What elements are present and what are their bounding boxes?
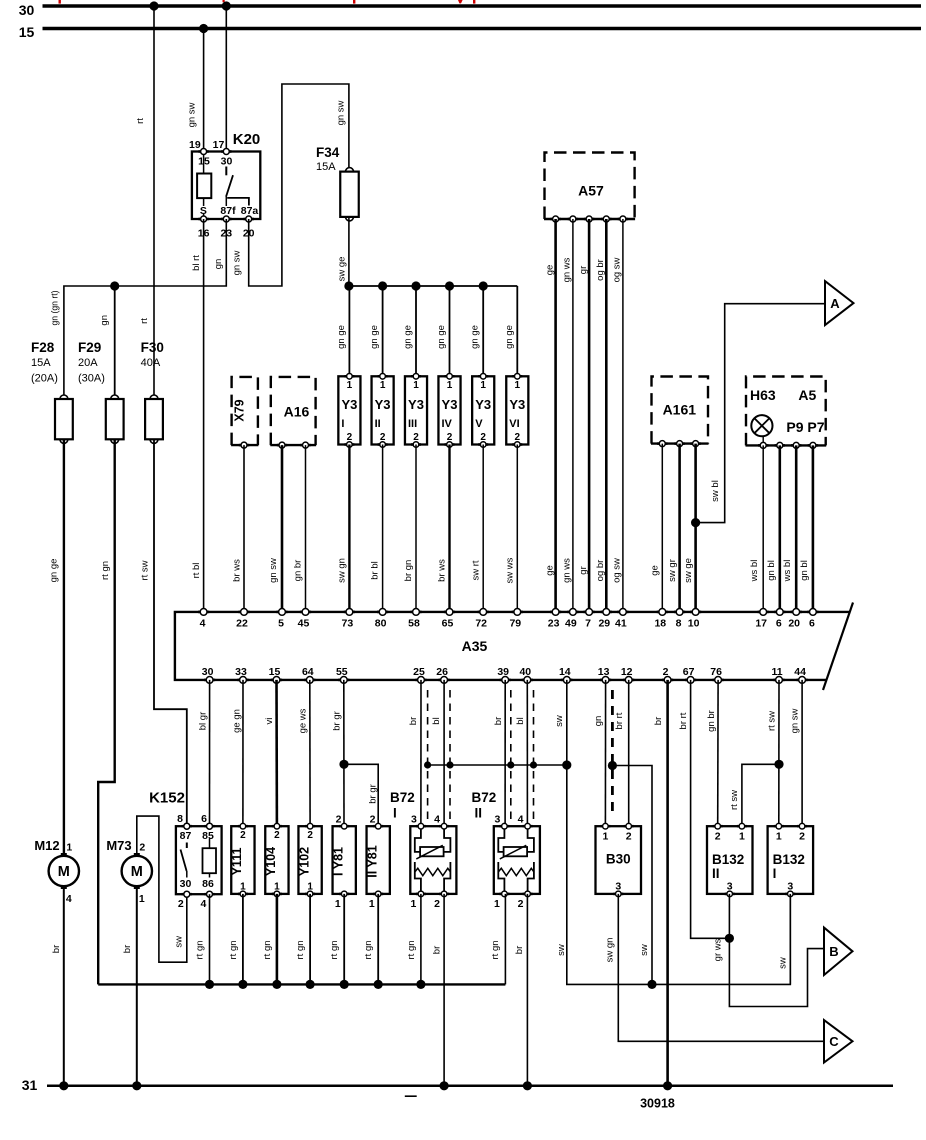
svg-text:1: 1: [66, 842, 72, 854]
wire rt gn to ground bus: [377, 894, 379, 985]
svg-text:3: 3: [411, 813, 417, 825]
svg-text:29: 29: [598, 617, 610, 629]
svg-text:2: 2: [139, 842, 145, 854]
wire gn sw from line 15 to K20 pin 19: [203, 29, 205, 152]
svg-text:B72: B72: [390, 790, 415, 805]
svg-text:br: br: [122, 945, 133, 953]
svg-text:44: 44: [794, 666, 806, 678]
svg-text:br bl: br bl: [370, 561, 381, 579]
svg-text:IV: IV: [442, 418, 453, 430]
svg-text:rt sw: rt sw: [729, 790, 740, 810]
svg-text:P9 P7: P9 P7: [786, 419, 824, 435]
svg-text:2: 2: [799, 831, 805, 843]
wire sw gn from B30 pin 3 to arrow C: [618, 894, 824, 1041]
svg-text:6: 6: [776, 617, 782, 629]
K20 pin 19: [198, 149, 208, 155]
svg-text:18: 18: [654, 617, 666, 629]
svg-text:2: 2: [347, 432, 353, 443]
wire gn sw from A16 to A35 pin 5: [281, 445, 284, 612]
svg-text:10: 10: [688, 617, 700, 629]
A35 top pin 4: [198, 609, 209, 616]
connector arrow A: [825, 281, 854, 325]
svg-text:87: 87: [180, 830, 192, 842]
wire rt from line 30 to fuse F30: [153, 6, 155, 399]
svg-text:gn ge: gn ge: [369, 325, 380, 349]
K20 pin 17: [221, 149, 231, 155]
svg-text:og br: og br: [595, 259, 606, 281]
K20 switch wire to 87f: [225, 197, 227, 206]
K20 coil: [197, 155, 211, 219]
wire rt gn from B72 I pin 1 to ground bus: [420, 894, 422, 985]
svg-text:B: B: [829, 944, 838, 959]
junction Y3 bus: [445, 281, 454, 290]
svg-text:64: 64: [302, 666, 314, 678]
svg-text:4: 4: [200, 617, 206, 629]
wire gn ge to Y3 V: [482, 286, 484, 376]
junction B132 II pin 3 with br rt: [725, 934, 734, 943]
svg-text:1: 1: [602, 831, 608, 843]
svg-text:gn: gn: [593, 716, 604, 727]
svg-text:1: 1: [139, 893, 145, 905]
svg-text:vi: vi: [264, 718, 275, 725]
junction on A161 pin3 wire: [691, 518, 700, 527]
svg-text:II: II: [475, 806, 483, 821]
module A5 with lamp H63 dashed box: [746, 377, 827, 446]
svg-text:2: 2: [380, 432, 386, 443]
K152 pin 6: [204, 823, 214, 829]
A35 top pin 8: [674, 609, 685, 616]
svg-text:2: 2: [447, 432, 453, 443]
svg-text:2: 2: [178, 898, 184, 910]
svg-text:Y102: Y102: [297, 847, 311, 876]
svg-text:rt sw: rt sw: [767, 711, 778, 731]
svg-text:sw gr: sw gr: [667, 559, 678, 582]
svg-text:8: 8: [676, 617, 682, 629]
solenoid valve Y104: [265, 826, 288, 894]
wire br from B72 I pin 2 to line 31: [443, 894, 445, 1086]
junction br pin2 wire on line 31: [663, 1081, 672, 1090]
svg-text:17: 17: [213, 139, 225, 151]
wire br ws from X79 to A35 pin 22: [243, 445, 245, 612]
svg-text:65: 65: [442, 617, 454, 629]
ground bus rt gn: [98, 983, 505, 985]
A35 bottom pin 33: [237, 677, 248, 684]
A35 top pin 7: [584, 609, 595, 616]
wire br gr branch to Y81 II: [344, 764, 378, 826]
wire sw from B132 I pin 3 down to screen ground line: [789, 894, 791, 985]
red clipped text fragments at top edge: [59, 0, 476, 4]
svg-text:1: 1: [413, 380, 419, 391]
control module A57 dashed box: [544, 153, 635, 220]
svg-text:rt: rt: [135, 118, 146, 124]
svg-text:2: 2: [336, 813, 342, 825]
fuse F29: [106, 395, 124, 443]
svg-text:sw ws: sw ws: [504, 557, 515, 583]
svg-text:1: 1: [335, 898, 341, 910]
junction on line 31: [523, 1081, 532, 1090]
svg-text:rt: rt: [139, 318, 150, 324]
svg-text:sw gn: sw gn: [605, 938, 616, 963]
svg-text:rt gn: rt gn: [490, 940, 501, 959]
svg-text:A5: A5: [798, 387, 816, 403]
svg-text:br: br: [408, 717, 419, 725]
K20 pin 23: [221, 216, 231, 222]
junction M73 on line 31: [132, 1081, 141, 1090]
wire gn from K20 pin 23 to fuses F28 F29: [64, 219, 226, 399]
svg-text:br rt: br rt: [678, 712, 689, 729]
K20 switch blade: [226, 175, 233, 197]
wire ws bl from A5 to A35: [762, 445, 764, 612]
svg-text:gn bl: gn bl: [799, 560, 810, 581]
svg-text:1: 1: [307, 882, 313, 893]
svg-text:4: 4: [518, 813, 524, 825]
svg-text:I Y81: I Y81: [331, 847, 345, 876]
wire gn from A35 pin 13 to B30 pin 1: [604, 680, 606, 826]
svg-text:2: 2: [370, 813, 376, 825]
svg-text:26: 26: [436, 666, 448, 678]
knock sensor B72 II: [494, 826, 540, 894]
A161 pin 1: [657, 441, 667, 447]
svg-text:br gr: br gr: [331, 711, 342, 731]
A57 pin 3: [584, 216, 594, 222]
svg-text:1: 1: [410, 898, 416, 910]
svg-text:22: 22: [236, 617, 248, 629]
junction on ground bus: [374, 980, 383, 989]
A35 top pin 17: [758, 609, 769, 616]
svg-text:gn ge: gn ge: [49, 559, 60, 583]
svg-text:15A: 15A: [31, 357, 51, 369]
A35 bottom pin 40: [522, 677, 533, 684]
wire rt gn to ground bus: [276, 894, 279, 985]
svg-text:M: M: [131, 864, 143, 880]
svg-text:1: 1: [447, 380, 453, 391]
svg-text:87f: 87f: [220, 205, 236, 217]
A35 top pin 65: [444, 609, 455, 616]
wire br from A35 pin 39 to B72 II pin 3: [504, 680, 506, 826]
svg-text:2: 2: [307, 830, 313, 841]
svg-text:15: 15: [19, 24, 35, 40]
junction Y3 bus: [344, 281, 353, 290]
A57 pin 4: [601, 216, 611, 222]
wire rt gn to ground bus: [309, 894, 311, 985]
svg-text:sw: sw: [556, 944, 567, 956]
svg-text:ge gn: ge gn: [232, 709, 243, 733]
svg-text:og br: og br: [595, 560, 606, 582]
svg-text:3: 3: [787, 881, 793, 893]
relay K20 box: [192, 152, 260, 220]
shield dashed line left of wire 26: [427, 690, 429, 820]
svg-text:45: 45: [298, 617, 310, 629]
svg-text:ws bl: ws bl: [782, 560, 793, 583]
svg-text:40: 40: [519, 666, 531, 678]
svg-text:3: 3: [727, 881, 733, 893]
svg-text:A35: A35: [462, 638, 488, 654]
wire br ws from Y3 IV to A35: [448, 445, 450, 612]
svg-text:gn ge: gn ge: [336, 325, 347, 349]
wire ge ws from A35 pin 64 to Y102: [309, 680, 311, 826]
svg-text:gr: gr: [578, 566, 589, 574]
svg-text:2: 2: [274, 830, 280, 841]
svg-text:4: 4: [200, 898, 206, 910]
wire gn ge to Y3 IV: [449, 286, 451, 376]
relay K152 box: [176, 826, 222, 894]
svg-text:gn sw: gn sw: [790, 708, 801, 733]
module A161 dashed box: [651, 377, 709, 444]
junction on ground bus: [306, 980, 315, 989]
A16 pin 2: [300, 442, 310, 448]
A35 top pin 45: [300, 609, 311, 616]
svg-text:gr: gr: [578, 266, 589, 274]
junction shield drain: [507, 761, 514, 768]
svg-text:br gn: br gn: [403, 560, 414, 582]
svg-text:VI: VI: [509, 418, 519, 430]
svg-text:B72: B72: [472, 790, 497, 805]
A16 pin 1: [277, 442, 287, 448]
junction on line 30 for K20 pin 17: [222, 1, 231, 10]
svg-text:20A: 20A: [78, 357, 98, 369]
svg-text:gn: gn: [213, 259, 224, 270]
A35 bottom pin 11: [773, 677, 784, 684]
shield dashed line right of wire 26: [449, 690, 451, 820]
wire sw rt from Y3 V to A35: [482, 445, 484, 612]
svg-text:1: 1: [494, 898, 500, 910]
K152 switch blade: [181, 850, 187, 872]
wire gn ge to Y3 II: [382, 286, 384, 376]
wire br bl from Y3 II to A35: [382, 445, 384, 612]
X79 pin: [239, 442, 249, 448]
terminal 31 ground line: [47, 1085, 893, 1088]
svg-text:ge ws: ge ws: [297, 708, 308, 733]
crankshaft sensor B30: [596, 826, 642, 894]
svg-text:17: 17: [755, 617, 767, 629]
wire br rt from A35 pin 12 to B30 pin 2: [628, 680, 630, 826]
svg-text:II: II: [375, 418, 381, 430]
svg-text:I: I: [393, 806, 397, 821]
A5 pin 4: [808, 442, 818, 448]
connector X79 dashed box: [231, 377, 258, 445]
K152 switch contact: [186, 843, 188, 849]
module A16 dashed box: [270, 377, 316, 445]
wire from line 30 to K20 pin 17: [225, 6, 227, 152]
junction on ground bus: [272, 980, 281, 989]
svg-text:2: 2: [518, 898, 524, 910]
svg-text:rt sw: rt sw: [140, 560, 151, 580]
motor M12: [49, 853, 79, 889]
svg-text:II: II: [712, 866, 720, 881]
A35 bottom pin 15: [271, 677, 282, 684]
wire rt gn from K152 pin 4 to ground bus: [209, 894, 211, 984]
svg-text:III: III: [408, 418, 417, 430]
svg-text:H63: H63: [750, 387, 776, 403]
svg-text:I: I: [341, 418, 344, 430]
svg-text:gn bl: gn bl: [766, 560, 777, 581]
svg-text:1: 1: [274, 882, 280, 893]
svg-text:sw ge: sw ge: [337, 257, 348, 282]
svg-text:rt gn: rt gn: [363, 940, 374, 959]
svg-text:rt gn: rt gn: [329, 940, 340, 959]
svg-text:gr ws: gr ws: [713, 938, 724, 961]
svg-text:M73: M73: [106, 838, 131, 853]
svg-text:1: 1: [380, 380, 386, 391]
injector valve Y3 V: [472, 376, 494, 444]
svg-text:Y111: Y111: [230, 848, 244, 876]
injector valve Y3 IV: [438, 376, 460, 444]
junction on ground bus: [238, 980, 247, 989]
svg-text:gn: gn: [99, 315, 110, 326]
svg-text:A16: A16: [284, 403, 310, 419]
wire bl rt from K20 pin 16 to A35 pin 4: [203, 219, 205, 612]
A5 pin 1: [758, 442, 768, 448]
svg-text:sw rt: sw rt: [470, 560, 481, 580]
junction shield drain: [530, 761, 537, 768]
A35 bottom pin 55: [338, 677, 349, 684]
shield drain line to pin 14 wire: [428, 764, 567, 766]
wire bl from A35 pin 40 to B72 II pin 4: [526, 680, 528, 826]
junction M12 on line 31: [59, 1081, 68, 1090]
svg-text:3: 3: [494, 813, 500, 825]
shield dashed line left of wire 40: [510, 690, 512, 820]
junction on line 15 for K20 pin 19: [199, 24, 208, 33]
svg-text:B30: B30: [606, 852, 631, 867]
svg-text:F30: F30: [141, 340, 164, 355]
A35 bottom pin 39: [500, 677, 511, 684]
svg-text:Y104: Y104: [264, 847, 278, 876]
wire gn br from A16 to A35 pin 45: [305, 445, 307, 612]
A35 top pin 58: [410, 609, 421, 616]
sensor B132 II: [707, 826, 753, 894]
wire bl gr from A35 pin 30 to K152 pin 6: [209, 680, 211, 826]
K20 pin 20: [244, 216, 254, 222]
wire br from B72 II pin 2 to line 31: [526, 894, 528, 1086]
solenoid valve Y81 I: [333, 826, 356, 894]
junction on ground bus: [416, 980, 425, 989]
wire rt gn to ground bus: [343, 894, 345, 985]
sensor B132 I: [768, 826, 814, 894]
svg-text:41: 41: [615, 617, 627, 629]
svg-text:bl rt: bl rt: [191, 255, 202, 271]
K20 contact 87a branch: [227, 198, 249, 206]
svg-text:23: 23: [548, 617, 560, 629]
B30 shield drain wire to ground bus: [612, 766, 652, 985]
svg-text:80: 80: [375, 617, 387, 629]
injector valve Y3 VI: [506, 376, 528, 444]
A35 top pin 73: [344, 609, 355, 616]
A35 bottom pin 44: [797, 677, 808, 684]
wire sw ge from F34 to Y3 bus: [348, 217, 350, 286]
K152 pin 4: [204, 891, 214, 897]
junction Y3 bus: [411, 281, 420, 290]
wire sw ws from Y3 VI to A35: [516, 445, 518, 612]
A35 top pin 10: [690, 609, 701, 616]
A35 bottom pin 13: [600, 677, 611, 684]
svg-text:rt bl: rt bl: [191, 563, 202, 579]
wire sw ge from A161 to A35: [694, 444, 697, 612]
svg-text:rt gn: rt gn: [295, 940, 306, 959]
K152 pin 2: [182, 891, 192, 897]
svg-text:K20: K20: [233, 131, 261, 148]
junction on ground bus: [340, 980, 349, 989]
wire br from M73 to line 31: [136, 887, 138, 1086]
svg-text:79: 79: [509, 617, 521, 629]
svg-text:og sw: og sw: [612, 257, 623, 282]
svg-text:gn ge: gn ge: [504, 325, 515, 349]
svg-text:2: 2: [715, 831, 721, 843]
svg-text:M: M: [58, 864, 70, 880]
svg-text:gn (gn rt): gn (gn rt): [50, 291, 61, 326]
svg-text:20: 20: [788, 617, 800, 629]
svg-text:gn ws: gn ws: [562, 558, 573, 583]
A35 top pin 29: [601, 609, 612, 616]
svg-text:A57: A57: [578, 182, 604, 198]
svg-text:6: 6: [809, 617, 815, 629]
wire gr from A57 to A35: [588, 219, 591, 612]
junction br gr branch: [339, 760, 348, 769]
svg-text:ge: ge: [650, 565, 661, 576]
svg-text:I: I: [773, 866, 777, 881]
lamp H63 symbol: [751, 415, 772, 445]
A35 top pin 5: [276, 609, 287, 616]
svg-text:sw: sw: [174, 936, 185, 948]
fuse F28: [55, 395, 73, 443]
svg-text:12: 12: [621, 666, 633, 678]
wire gn ge from F28 to M12: [63, 439, 65, 856]
wire gr ws from B132 II pin 3 to arrow B: [729, 894, 824, 1007]
svg-text:30918: 30918: [640, 1096, 675, 1110]
A161 pin 3: [690, 441, 700, 447]
svg-text:55: 55: [336, 666, 348, 678]
wire gn ge to Y3 VI: [516, 286, 518, 376]
svg-text:br gr: br gr: [367, 784, 378, 804]
svg-text:19: 19: [189, 139, 201, 151]
svg-text:2: 2: [413, 432, 419, 443]
svg-text:30: 30: [180, 878, 192, 890]
svg-text:1: 1: [515, 380, 521, 391]
Y3 supply bus from F34: [349, 285, 517, 287]
svg-text:bl gr: bl gr: [198, 712, 209, 730]
terminal 15 bus line: [43, 27, 922, 31]
wire gn br from A35 pin 76 to B132 II pin 2: [717, 680, 719, 826]
svg-text:2: 2: [434, 898, 440, 910]
junction on sw wire: [562, 760, 571, 769]
wire sw bl to arrow A: [696, 304, 825, 523]
solenoid valve Y81 II: [367, 826, 390, 894]
K152 pin 8: [182, 823, 192, 829]
wire ge from A57 to A35: [554, 219, 557, 612]
svg-text:bl: bl: [515, 717, 526, 724]
svg-text:sw: sw: [554, 715, 565, 727]
K152 switch wire to 30: [186, 871, 188, 878]
injector valve Y3 I: [338, 376, 360, 444]
svg-text:B132: B132: [773, 852, 805, 867]
wire gn bl from A5 to A35: [778, 445, 781, 612]
svg-text:gn ge: gn ge: [436, 325, 447, 349]
shield dashed line right of wire 40: [533, 690, 535, 820]
svg-text:rt gn: rt gn: [262, 940, 273, 959]
junction rt sw branch: [774, 760, 783, 769]
wire br from A35 pin 2 to line 31: [666, 680, 669, 1086]
svg-text:4: 4: [434, 813, 440, 825]
A35 top pin 23: [550, 609, 561, 616]
A35 bottom pin 25: [415, 677, 426, 684]
svg-text:(20A): (20A): [31, 372, 58, 384]
wire ws bl from A5 to A35: [795, 445, 798, 612]
svg-text:2: 2: [240, 830, 246, 841]
K152 coil: [203, 839, 217, 878]
svg-text:Y3: Y3: [475, 397, 491, 412]
A35 top pin 6: [807, 609, 818, 616]
svg-text:bl: bl: [431, 717, 442, 724]
svg-text:C: C: [829, 1034, 839, 1049]
